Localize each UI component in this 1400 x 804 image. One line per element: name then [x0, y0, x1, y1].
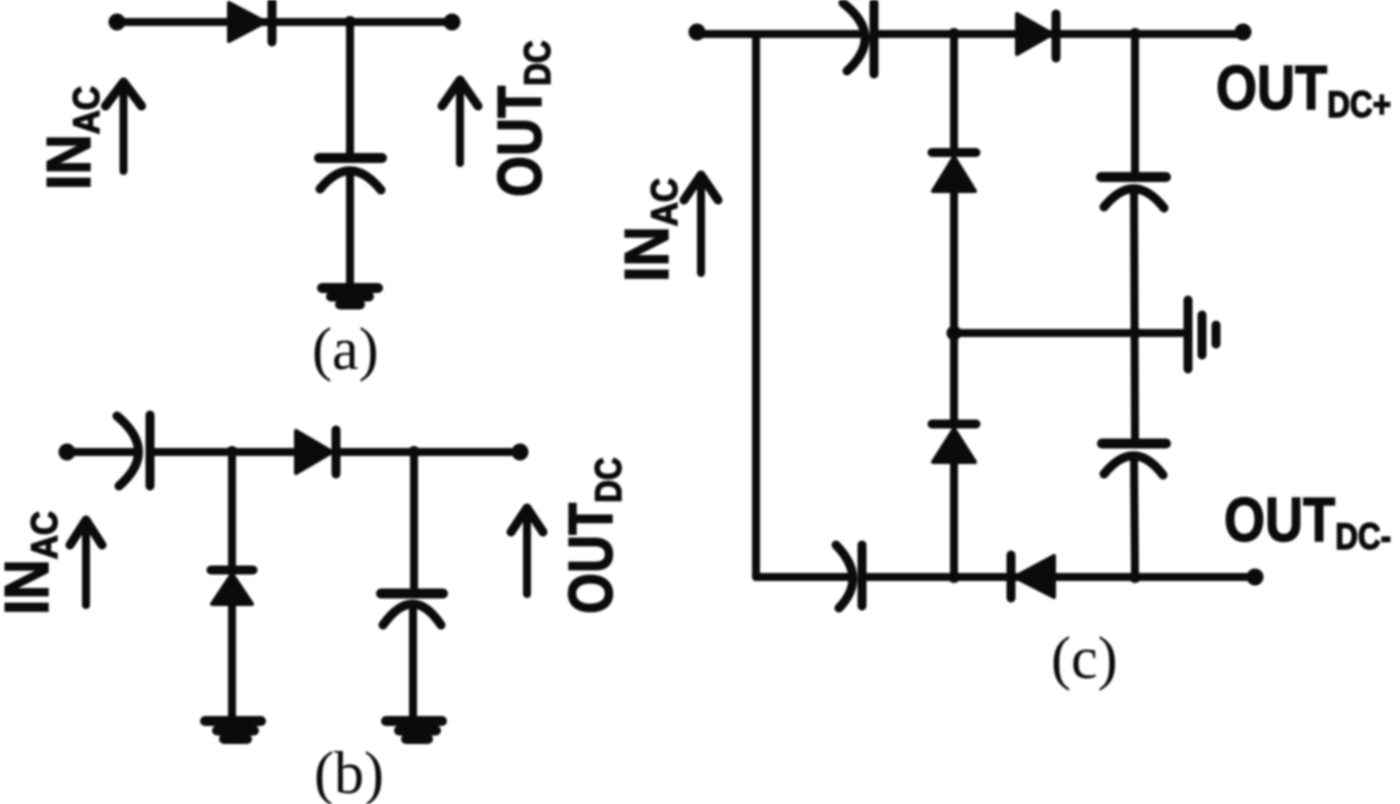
wire (b) shunt branch 1 lower — [228, 604, 236, 718]
wire (c) right branch lower — [1134, 458, 1135, 577]
svg-text:INAC: INAC — [35, 86, 107, 190]
wire (c) bottom rail left — [756, 573, 851, 581]
svg-text:INAC: INAC — [0, 511, 65, 615]
wire (c) top rail left — [697, 30, 861, 38]
node OUT (a) terminal dot — [444, 14, 461, 31]
wire (c) middle horizontal — [954, 329, 1184, 337]
node (a) junction — [344, 16, 356, 28]
node (c) junction bottom right — [1129, 571, 1141, 583]
node OUT_DC- terminal dot — [1247, 569, 1264, 586]
wire (b) rail mid — [155, 448, 297, 456]
wire (b) rail left — [67, 448, 136, 456]
svg-text:OUTDC: OUTDC — [557, 457, 630, 614]
wire (c) mid branch lower — [950, 462, 958, 577]
capacitor C6 (c) right lower — [1102, 444, 1166, 476]
node (c) junction bottom mid — [948, 571, 960, 583]
ground (a) — [322, 288, 378, 305]
wire (c) left vertical — [752, 34, 760, 577]
node IN (b) terminal dot — [59, 444, 76, 461]
ground (b) left — [205, 721, 261, 739]
capacitor C4 (c) series top — [843, 3, 874, 74]
node (c) junction top right — [1129, 28, 1141, 40]
svg-text:OUTDC+: OUTDC+ — [1216, 54, 1391, 126]
capacitor C3 (b) shunt — [381, 594, 443, 626]
wire (b) shunt branch 1 upper — [228, 452, 236, 566]
ground (b) right — [386, 721, 442, 739]
node IN (c) terminal dot — [689, 24, 706, 41]
capacitor C5 (c) right upper — [1101, 177, 1166, 208]
svg-text:(c): (c) — [1051, 625, 1118, 691]
wire (a) vertical to C1 — [346, 22, 354, 154]
diode D7 (c) bottom, pointing left — [1011, 555, 1054, 598]
node (c) mid junction — [947, 326, 962, 341]
node IN (a) terminal dot — [109, 14, 126, 31]
wire (b) shunt branch 2 upper — [410, 452, 418, 589]
arrow IN (c) — [684, 175, 718, 273]
wire (c) mid branch upper — [950, 34, 958, 148]
node (b) junction 2 — [408, 446, 420, 458]
diode D2 (b) series — [296, 430, 336, 474]
diode D5 (c) mid upper — [932, 153, 976, 192]
capacitor C2 (b) series — [117, 415, 150, 486]
capacitor C1 (a) — [319, 158, 382, 190]
node (c) junction top mid — [948, 28, 960, 40]
svg-text:(a): (a) — [312, 316, 379, 382]
node (b) junction 1 — [226, 446, 238, 458]
arrow IN (b) — [70, 520, 102, 605]
node OUT (b) terminal dot — [512, 444, 529, 461]
wire (a) top rail — [117, 18, 452, 26]
wire (b) rail right — [340, 448, 520, 456]
wire (c) top rail right — [879, 30, 1243, 38]
arrow IN (a) — [106, 82, 142, 171]
svg-text:INAC: INAC — [613, 178, 685, 282]
svg-text:OUTDC-: OUTDC- — [1224, 486, 1391, 558]
wire (a) C1 to ground — [346, 172, 354, 286]
wire (c) bottom rail right — [867, 573, 1255, 581]
arrow OUT (b) — [511, 508, 543, 594]
diode D1 (a) series — [229, 2, 272, 42]
diode D4 (c) top — [1017, 14, 1056, 58]
diode D3 (b) shunt — [211, 570, 253, 604]
wire (c) right branch middle — [1134, 191, 1135, 438]
capacitor C7 (c) series bottom — [836, 545, 862, 608]
diode D6 (c) mid lower — [932, 424, 976, 462]
svg-text:(b): (b) — [314, 740, 384, 804]
wire (b) shunt branch 2 lower — [409, 608, 417, 718]
arrow OUT (a) — [442, 80, 478, 163]
ground (c) sideways — [1188, 300, 1216, 369]
node OUT_DC+ terminal dot — [1235, 24, 1252, 41]
node (c) junction mid right — [1129, 327, 1141, 339]
wire (c) mid branch middle — [950, 191, 958, 419]
wire (c) right branch upper — [1131, 34, 1139, 172]
svg-text:OUTDC: OUTDC — [486, 40, 559, 197]
